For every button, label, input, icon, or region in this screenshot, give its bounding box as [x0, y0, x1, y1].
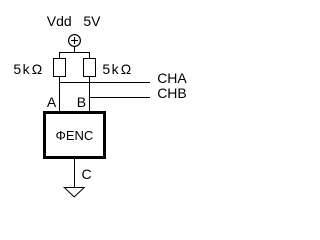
svg-text:C: C [82, 166, 92, 182]
svg-text:5V: 5V [83, 13, 101, 29]
svg-text:CHA: CHA [157, 70, 187, 86]
svg-text:Ω: Ω [121, 61, 131, 77]
svg-text:k: k [23, 61, 31, 77]
svg-text:ΦENC: ΦENC [56, 128, 94, 143]
svg-text:5: 5 [102, 61, 110, 77]
svg-text:Ω: Ω [32, 61, 42, 77]
svg-text:Vdd: Vdd [47, 13, 72, 29]
svg-text:k: k [112, 61, 120, 77]
svg-text:CHB: CHB [157, 85, 187, 101]
svg-text:5: 5 [13, 61, 21, 77]
svg-text:A: A [47, 94, 57, 110]
svg-text:B: B [77, 94, 86, 110]
